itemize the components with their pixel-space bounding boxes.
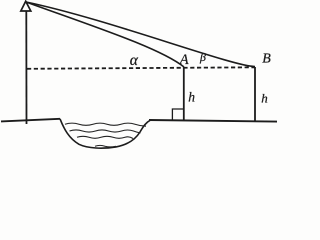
right angle mark at foot of A (172, 109, 183, 120)
svg-text:h: h (188, 90, 195, 105)
svg-text:h: h (261, 90, 268, 105)
ground line right of river (149, 120, 277, 122)
sight line to B (26, 2, 255, 67)
svg-text:B: B (262, 52, 271, 67)
sight line to A (26, 2, 184, 67)
svg-text:α: α (130, 52, 139, 69)
mast vertical line (25, 11, 27, 124)
svg-text:A: A (179, 52, 189, 68)
svg-text:β: β (199, 50, 206, 64)
water wave line 2 (70, 130, 141, 133)
water wave line 1 (65, 123, 146, 126)
dashed horizontal sight line (27, 67, 255, 69)
water wave line 3 (77, 136, 133, 138)
ground line left of river (1, 119, 60, 122)
mast arrowhead (21, 1, 31, 11)
water wave line 4 (95, 145, 116, 147)
vertical from B to ground (254, 67, 256, 121)
vertical from A to ground (183, 67, 185, 121)
river bank outline (60, 119, 151, 148)
